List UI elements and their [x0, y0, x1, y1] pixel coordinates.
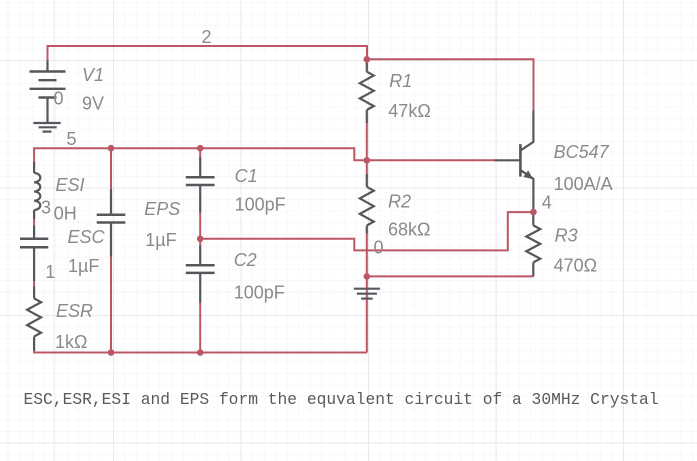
capacitor C2	[186, 246, 215, 303]
wire C1 top	[199, 148, 201, 157]
junction node 2 / R1 top	[364, 56, 371, 63]
svg-text:1µF: 1µF	[68, 256, 99, 276]
label ESI	[56, 175, 85, 195]
svg-text:R2: R2	[388, 192, 411, 212]
junction base node / R1 bottom	[364, 157, 371, 164]
svg-text:ESC: ESC	[68, 227, 106, 247]
ground at battery	[33, 123, 60, 132]
wire top rail node 2: battery positive to R1 top and collector	[48, 46, 534, 111]
value 100pF (C1)	[235, 195, 286, 215]
wire mid node to emitter node 4	[200, 212, 533, 250]
svg-text:C2: C2	[234, 250, 257, 270]
wire R2 top lead	[366, 162, 368, 175]
junction C1-C2 midpoint	[197, 236, 204, 243]
value 1kOhm	[55, 332, 87, 352]
label R2	[388, 192, 411, 212]
label ESR	[56, 301, 93, 321]
label C1	[235, 166, 258, 186]
value 100pF (C2)	[234, 283, 285, 303]
svg-text:1kΩ: 1kΩ	[55, 332, 87, 352]
svg-text:ESR: ESR	[56, 301, 93, 321]
resistor R1	[360, 63, 374, 123]
label ESC	[68, 227, 106, 247]
svg-text:C1: C1	[235, 166, 258, 186]
node 5	[67, 129, 77, 149]
svg-text:ESC,ESR,ESI and EPS form the e: ESC,ESR,ESI and EPS form the equvalent c…	[24, 390, 659, 409]
wire R2 bottom to ground and bottom rail (net 0)	[366, 233, 368, 353]
svg-text:0H: 0H	[54, 204, 77, 224]
svg-text:2: 2	[202, 27, 212, 47]
wire EPS top	[110, 148, 112, 189]
capacitor ESC	[20, 226, 48, 282]
wire R1 bottom to base node	[366, 123, 368, 162]
node 2	[202, 27, 212, 47]
resistor ESR	[27, 287, 41, 351]
svg-text:V1: V1	[82, 65, 104, 85]
svg-text:68kΩ: 68kΩ	[388, 220, 430, 240]
node 3	[41, 198, 51, 218]
svg-text:1µF: 1µF	[145, 230, 176, 250]
battery V1	[30, 61, 66, 123]
svg-text:100pF: 100pF	[235, 195, 286, 215]
value 9V	[82, 94, 104, 114]
junction bottom rail / C2 bottom	[197, 349, 204, 356]
svg-text:R1: R1	[389, 71, 412, 91]
value 68kOhm	[388, 220, 430, 240]
junction bottom rail / EPS bottom	[108, 349, 115, 356]
svg-text:5: 5	[67, 129, 77, 149]
wire node 5 rail: left branch to EPS, C1, R1 bottom and base	[34, 148, 494, 162]
junction node 5 / C1 top	[197, 145, 204, 152]
svg-text:EPS: EPS	[144, 199, 180, 219]
resistor R3	[526, 212, 540, 276]
value 0H	[54, 204, 77, 224]
svg-text:47kΩ: 47kΩ	[388, 101, 430, 121]
label EPS	[144, 199, 180, 219]
svg-text:470Ω: 470Ω	[554, 256, 598, 276]
wire ground junction to R3 bottom	[367, 275, 534, 277]
value 1uF (ESC)	[68, 256, 99, 276]
label R3	[555, 225, 578, 245]
junction ground net 0	[364, 273, 371, 280]
svg-text:100pF: 100pF	[234, 283, 285, 303]
node 1	[45, 262, 55, 282]
svg-text:3: 3	[41, 198, 51, 218]
label V1	[82, 65, 104, 85]
value 470Ohm	[554, 256, 598, 276]
svg-text:1: 1	[45, 262, 55, 282]
wire collector top lead (drawn with rail) / emitter node 4 label	[542, 193, 552, 213]
junction node 5 / EPS top	[108, 145, 115, 152]
value 100A/A	[554, 174, 613, 194]
wire C2 bottom	[199, 302, 201, 353]
label C2	[234, 250, 257, 270]
svg-text:BC547: BC547	[554, 142, 610, 162]
junction node 4 emitter	[530, 209, 537, 216]
transistor Q1 BC547	[494, 111, 533, 213]
caption text	[24, 390, 659, 409]
ground at node 0	[354, 289, 380, 299]
value 1uF (EPS)	[145, 230, 176, 250]
wire ESI to ESC (node 3 segment)	[33, 219, 35, 226]
capacitor EPS	[97, 189, 126, 257]
svg-text:4: 4	[542, 193, 552, 213]
label BC547	[554, 142, 610, 162]
wire C1 bottom to mid node	[199, 212, 201, 239]
wire bottom rail	[34, 350, 367, 353]
svg-text:0: 0	[54, 89, 64, 109]
capacitor C1	[186, 157, 215, 213]
svg-text:9V: 9V	[82, 94, 104, 114]
resistor R2	[360, 174, 374, 233]
inductor ESI	[34, 162, 40, 219]
wire R1 top lead	[366, 59, 368, 63]
wire C2 top	[199, 239, 201, 246]
svg-text:0: 0	[374, 238, 384, 258]
svg-text:ESI: ESI	[56, 175, 85, 195]
value 47kOhm	[388, 101, 430, 121]
label R1	[389, 71, 412, 91]
svg-text:100A/A: 100A/A	[554, 174, 613, 194]
wire ESC to ESR (node 1 segment)	[33, 281, 35, 288]
svg-text:R3: R3	[555, 225, 578, 245]
node 0 at battery	[54, 89, 64, 109]
wire EPS bottom	[110, 256, 112, 353]
node 0	[374, 238, 384, 258]
